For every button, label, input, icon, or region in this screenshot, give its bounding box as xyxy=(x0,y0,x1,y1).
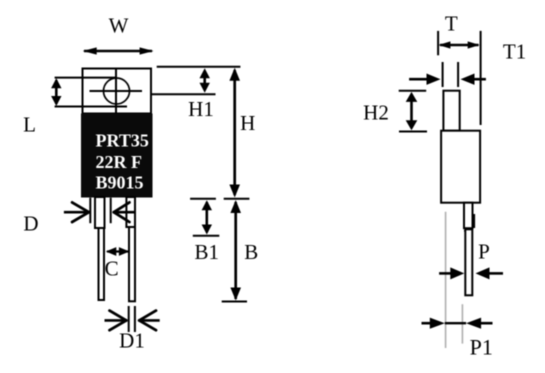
side lead wide part xyxy=(464,203,473,229)
H2 bottom extension line xyxy=(399,131,427,133)
B1 bottom extension line xyxy=(193,235,220,237)
body black block xyxy=(81,114,153,198)
side lead step line xyxy=(464,230,473,232)
D1 left extension line xyxy=(128,306,130,332)
left lead wide part xyxy=(95,197,105,228)
side lead narrow part xyxy=(465,229,472,295)
P1 right arrow xyxy=(479,322,493,325)
B bottom extension line xyxy=(222,301,247,303)
svg-text:B9015: B9015 xyxy=(96,172,144,192)
D1 left arrow xyxy=(105,319,127,322)
P right arrow xyxy=(488,272,503,275)
dimension arrow T xyxy=(440,44,479,47)
L top extension line xyxy=(55,77,117,79)
dimension arrow C xyxy=(107,250,128,252)
right lead wide part xyxy=(126,197,135,227)
svg-text:P: P xyxy=(478,240,490,264)
T1 right extension line xyxy=(457,62,459,87)
side lead shoulder edge xyxy=(472,214,475,228)
svg-text:C: C xyxy=(105,257,119,281)
svg-text:H2: H2 xyxy=(363,101,389,125)
left lead narrow part xyxy=(99,228,105,300)
D right arrow xyxy=(114,211,134,214)
dimension arrow W xyxy=(84,50,152,52)
T left extension line xyxy=(437,31,439,55)
svg-text:22R F: 22R F xyxy=(96,152,143,172)
svg-text:H: H xyxy=(240,111,255,135)
D right extension line xyxy=(110,198,112,224)
H top extension line xyxy=(157,66,241,68)
dimension line H xyxy=(233,70,236,195)
dimension arrow L xyxy=(55,80,58,104)
D left arrow xyxy=(64,211,89,214)
P1 left arrow xyxy=(422,322,433,325)
side body outline xyxy=(441,131,480,203)
D left extension line xyxy=(89,198,91,224)
P1 right gray extension line xyxy=(461,304,463,343)
B1 top extension line xyxy=(190,198,216,200)
svg-text:T1: T1 xyxy=(503,40,526,64)
svg-text:P1: P1 xyxy=(470,335,493,360)
T1 left arrow xyxy=(409,78,429,81)
P left arrow xyxy=(439,272,452,275)
svg-text:PRT35: PRT35 xyxy=(96,130,149,150)
T1 left extension line xyxy=(442,62,444,87)
dimension arrow B1 xyxy=(206,202,209,233)
svg-text:D: D xyxy=(23,211,38,235)
H2 top extension line xyxy=(399,90,427,92)
L bottom extension line xyxy=(55,106,127,108)
svg-text:T: T xyxy=(445,11,458,35)
P1 left gray extension line xyxy=(445,212,447,348)
svg-text:B: B xyxy=(244,240,258,264)
D1 right arrow xyxy=(139,319,160,322)
T right extension line xyxy=(480,31,482,125)
mounting hole circle xyxy=(104,78,130,104)
dimension arrow B xyxy=(234,202,237,299)
P1 dimension line xyxy=(445,322,466,324)
B top extension line xyxy=(224,198,250,200)
H1 extension line xyxy=(151,93,216,95)
D1 right extension line xyxy=(134,306,136,332)
side tab outline xyxy=(443,91,459,131)
T1 right arrow xyxy=(472,78,486,81)
svg-text:H1: H1 xyxy=(188,97,214,121)
crosshair horizontal xyxy=(90,90,143,92)
svg-text:W: W xyxy=(109,14,129,38)
svg-text:L: L xyxy=(23,113,36,137)
svg-text:B1: B1 xyxy=(195,240,220,264)
dimension arrow H2 xyxy=(410,94,413,128)
right lead narrow part xyxy=(129,227,135,301)
dimension arrow H1 xyxy=(203,71,206,90)
svg-text:D1: D1 xyxy=(119,329,145,353)
crosshair vertical xyxy=(115,68,117,113)
tab outline xyxy=(83,69,152,114)
